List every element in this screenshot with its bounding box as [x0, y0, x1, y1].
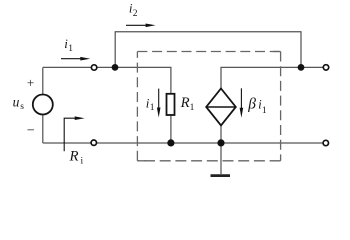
terminal: output top [323, 65, 328, 70]
svg-text:s: s [20, 102, 24, 112]
svg-text:u: u [13, 94, 20, 109]
svg-text:1: 1 [190, 103, 195, 113]
arrow Ri (input resistance) [64, 116, 85, 151]
dashed box: bottom edge [137, 160, 280, 162]
terminal: input bottom [91, 140, 96, 145]
node: input top junction [112, 64, 119, 71]
wire: top input rail to R1 top lead [43, 67, 171, 94]
svg-text:R: R [69, 149, 79, 165]
ground [211, 143, 231, 176]
dashed box: corner dash top-right [273, 51, 281, 53]
wire: bottom rail [43, 142, 326, 144]
svg-text:1: 1 [68, 44, 73, 54]
label Ri [69, 149, 84, 167]
wire: diamond bottom lead [220, 125, 222, 143]
wire: R1 bottom lead [170, 115, 172, 143]
dashed box: left edge [136, 52, 138, 161]
terminal: output bottom [323, 140, 328, 145]
svg-text:R: R [180, 95, 190, 111]
arrow i1 (through R1) [157, 89, 161, 118]
arrow i1 (top left) [61, 57, 90, 61]
svg-text:i: i [81, 157, 84, 167]
voltage source u_s [33, 95, 53, 115]
dashed box: corner dash bottom-left [137, 160, 145, 162]
node: output top junction [298, 64, 305, 71]
resistor R1 [167, 94, 175, 115]
label beta*i1 [247, 96, 267, 117]
label i1 (top left) [64, 36, 73, 54]
arrow i2 [126, 24, 156, 28]
node: ground junction [217, 139, 224, 146]
svg-text:1: 1 [262, 106, 267, 116]
svg-text:2: 2 [133, 9, 138, 19]
label i2 [129, 0, 138, 18]
svg-text:−: − [27, 123, 35, 138]
node: R1 bottom junction [167, 139, 174, 146]
label R1 [180, 95, 195, 113]
wire: diamond top lead to output terminal [221, 67, 326, 88]
controlled source (diamond) [206, 89, 236, 126]
label i1 (through R1) [146, 95, 155, 113]
dashed box: right edge [280, 52, 282, 161]
dashed box: two-port boundary, top edge [137, 51, 280, 53]
wire: left branch through source [42, 67, 44, 143]
arrow beta*i1 [240, 88, 244, 118]
svg-text:+: + [27, 75, 34, 90]
label u_s [13, 94, 25, 111]
terminal: input top [91, 65, 96, 70]
wire: i2 top loop [115, 32, 301, 68]
svg-text:β: β [247, 96, 256, 113]
svg-text:1: 1 [150, 103, 155, 113]
